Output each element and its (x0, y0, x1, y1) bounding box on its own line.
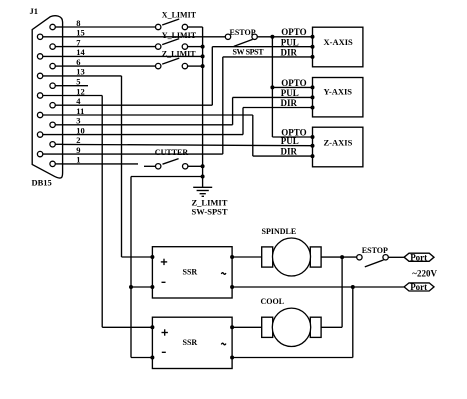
svg-text:DIR: DIR (281, 47, 298, 57)
svg-text:Port: Port (410, 253, 427, 263)
wire ESTOP2 to Port1 (388, 256, 404, 258)
driver box X-AXIS (313, 27, 363, 67)
svg-text:13: 13 (76, 67, 85, 77)
wire pin4 to X-AXIS PUL (63, 47, 313, 105)
wire pin14 to ground bus (63, 55, 203, 57)
wire ESTOP to X-AXIS OPTO (257, 36, 312, 38)
switch ESTOP SW SPST (225, 34, 257, 46)
pin 15 (37, 34, 62, 39)
svg-text:SW-SPST: SW-SPST (192, 206, 228, 216)
svg-text:X_LIMIT: X_LIMIT (162, 10, 197, 19)
junction Z DIR pin (311, 154, 315, 158)
relay box SSR1 (152, 247, 232, 298)
junction SSR1 in minus (150, 285, 154, 289)
wire pin8 to X_LIMIT (63, 26, 156, 28)
junction SSR1 out bottom (230, 285, 234, 289)
pin 5 (50, 83, 63, 88)
wire pin13 to SSR1 plus (63, 76, 153, 257)
svg-text:DIR: DIR (281, 98, 298, 108)
pin 7 (50, 44, 63, 49)
driver box Z-AXIS (313, 127, 363, 167)
svg-text:CUTTER: CUTTER (155, 148, 189, 157)
junction spindle return (340, 255, 344, 259)
SSR2 tilde (221, 343, 226, 345)
svg-text:4: 4 (76, 96, 81, 106)
svg-text:5: 5 (76, 77, 80, 87)
pin 11 (37, 112, 62, 117)
svg-text:9: 9 (76, 145, 80, 155)
wire OPTO bus vertical (271, 37, 273, 137)
junction X DIR pin (311, 55, 315, 59)
svg-text:8: 8 (76, 18, 80, 28)
junction Z PUL pin (311, 144, 315, 148)
motor SPINDLE (262, 238, 321, 276)
pin 4 (50, 103, 63, 108)
switch ESTOP2 (357, 255, 389, 267)
junction SSR2 in minus (150, 356, 154, 360)
svg-text:Z-AXIS: Z-AXIS (324, 138, 353, 148)
connector J1 DB15 outline (32, 16, 62, 178)
port symbol Port2 (404, 282, 434, 292)
wire pin12 to SSR2 plus (63, 96, 153, 328)
svg-text:6: 6 (76, 57, 80, 67)
svg-text:1: 1 (76, 155, 80, 165)
svg-text:7: 7 (76, 37, 81, 47)
pin 3 (50, 122, 63, 127)
pin 13 (37, 73, 62, 78)
svg-text:PUL: PUL (281, 38, 299, 48)
junction X OPTO pin (311, 35, 315, 39)
junction pin14 bus (201, 54, 205, 58)
junction Y OPTO pin (311, 85, 315, 89)
wire pin5 stub (63, 85, 88, 87)
wire CUTTER to ground bus (188, 165, 203, 167)
wire pin9 to X-AXIS DIR (63, 57, 313, 154)
pin 12 (37, 93, 62, 98)
wire SSR1 to spindle (232, 256, 262, 258)
junction SSR1 out top (230, 255, 234, 259)
SSR2 minus sign (162, 351, 166, 353)
ground (193, 187, 212, 196)
driver box Y-AXIS (313, 78, 363, 117)
junction Y PUL pin (311, 95, 315, 99)
SSR1 minus sign (162, 281, 166, 283)
svg-text:15: 15 (76, 28, 85, 38)
wire pin3 to Y-AXIS PUL (63, 97, 313, 124)
wire return riser to cool (321, 257, 342, 327)
junction SSR2 out top (230, 325, 234, 329)
switch Z_LIMIT (156, 58, 188, 69)
svg-text:J1: J1 (30, 6, 39, 16)
svg-text:12: 12 (76, 86, 85, 96)
svg-text:SSR: SSR (183, 268, 198, 277)
junction Y_LIMIT bus (201, 45, 205, 49)
switch X_LIMIT (156, 19, 188, 30)
junction X PUL pin (311, 45, 315, 49)
wire pin11 to Z-AXIS DIR (63, 115, 313, 156)
junction Y OPTO bus (270, 85, 274, 89)
svg-text:X-AXIS: X-AXIS (324, 37, 354, 47)
svg-text:DB15: DB15 (32, 177, 52, 187)
port symbol Port1 (404, 253, 434, 263)
svg-text:Z_LIMIT: Z_LIMIT (162, 49, 196, 58)
junction port2 riser (351, 285, 355, 289)
wire Z_LIMIT to ground bus (188, 65, 203, 67)
wire ground bus vertical (202, 27, 204, 187)
relay box SSR2 (152, 317, 232, 368)
wire pin1 to CUTTER (63, 164, 156, 166)
svg-text:~220V: ~220V (412, 268, 437, 278)
svg-text:ESTOP: ESTOP (230, 28, 256, 37)
svg-text:Port: Port (410, 282, 427, 292)
wire pin15 to ESTOP (63, 36, 226, 38)
wire pin10 to Y-AXIS DIR (63, 108, 313, 135)
switch CUTTER (156, 159, 188, 169)
wire Y_LIMIT to ground bus (188, 46, 203, 48)
pin 14 (37, 54, 62, 59)
junction CUTTER bus (201, 164, 205, 168)
svg-text:SW SPST: SW SPST (233, 48, 265, 57)
SSR1 plus sign (161, 259, 167, 265)
junction Y DIR pin (311, 106, 315, 110)
wire Y-AXIS OPTO (272, 86, 312, 88)
svg-text:PUL: PUL (281, 88, 299, 98)
wire spindle to ESTOP2 (321, 256, 357, 258)
pin 2 (50, 142, 63, 147)
junction Z_LIMIT bus (201, 64, 205, 68)
svg-text:11: 11 (76, 106, 84, 116)
svg-text:SSR: SSR (183, 338, 198, 347)
junction Z OPTO pin (311, 135, 315, 139)
SSR2 plus sign (162, 329, 168, 335)
junction SSR2 in plus (150, 325, 154, 329)
junction SSR1 in plus (150, 255, 154, 259)
svg-text:COOL: COOL (261, 297, 285, 306)
svg-text:PUL: PUL (281, 136, 299, 146)
junction OPTO bus top (270, 35, 274, 39)
svg-text:Y-AXIS: Y-AXIS (324, 87, 353, 97)
svg-text:DIR: DIR (281, 147, 298, 157)
wire bus to SSR minus riser (131, 177, 203, 358)
junction minus riser bus (201, 175, 205, 179)
SSR1 tilde (221, 273, 226, 275)
switch Y_LIMIT (156, 39, 188, 50)
svg-text:2: 2 (76, 135, 80, 145)
svg-text:10: 10 (76, 125, 85, 135)
wire pin2 to Z-AXIS PUL (63, 144, 313, 145)
pin 10 (37, 132, 62, 137)
wire pin6 to Z_LIMIT (63, 65, 156, 67)
pin 8 (50, 24, 63, 29)
wire SSR2 to cool (232, 326, 262, 328)
motor COOL (262, 308, 321, 346)
junction SSR2 out bottom (230, 356, 234, 360)
junction minus riser split (129, 285, 133, 289)
wire Z-AXIS OPTO (272, 136, 312, 138)
svg-text:ESTOP: ESTOP (362, 246, 388, 255)
svg-text:OPTO: OPTO (281, 27, 306, 37)
pin 9 (37, 151, 62, 156)
pin 6 (50, 63, 63, 68)
svg-text:14: 14 (76, 47, 85, 57)
svg-text:SPINDLE: SPINDLE (262, 227, 297, 236)
wire X_LIMIT to ground bus (188, 26, 203, 28)
wire riser to SSR2 out bottom (232, 287, 353, 358)
pin 1 (50, 161, 63, 166)
svg-text:OPTO: OPTO (281, 78, 306, 88)
wire SSR1 bottom to Port2 (232, 286, 404, 288)
svg-text:Y_LIMIT: Y_LIMIT (162, 31, 197, 40)
svg-text:3: 3 (76, 116, 80, 126)
wire pin7 to Y_LIMIT (63, 46, 156, 48)
